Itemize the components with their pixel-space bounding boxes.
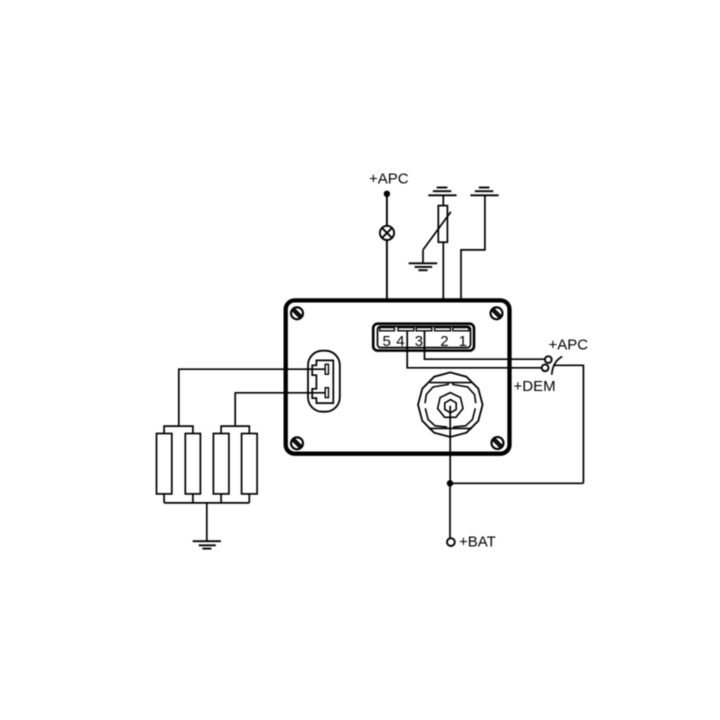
connector J3 ring segment top-left [425,383,448,404]
ground G4 (glow plugs) [193,541,221,548]
wire thermistor tap to ground G2 [422,250,424,263]
wire pin 4 to switch lower contact [407,331,542,368]
lamp L1 (indicator bulb) [380,226,394,240]
node A (junction dot under +APC) [384,191,390,197]
wire junction to switch branch [450,482,583,484]
svg-text:2: 2 [440,333,448,350]
connector J3 bottom chord [429,427,472,429]
svg-text:+DEM: +DEM [514,378,556,395]
wire junction to +BAT terminal [449,483,451,538]
wire switch to battery junction [553,365,583,483]
connector J3 inner ring [438,393,463,418]
ground G1 (inverted, above thermistor) [428,188,456,196]
pin slot upper [325,364,328,374]
pin slot lower [325,388,328,398]
screw bottom-left [291,437,303,449]
screw top-right [491,307,503,319]
connector J2 keyed profile [312,360,333,403]
pin 4 [398,328,414,331]
connector J3 top chord [430,382,472,384]
node B (battery junction dot) [447,480,453,486]
connector J3 ring segment bottom-right [454,408,475,428]
svg-text:5: 5 [383,333,391,350]
pin 3 [416,328,432,331]
svg-text:4: 4 [396,333,404,350]
connector J1 inner shell [378,326,471,347]
pin 1 [453,328,469,331]
connector J3 ring segment bottom-left [425,408,446,428]
screw top-left [291,307,303,319]
connector J3 ring segment top-right [453,383,476,404]
ground G2 (below thermistor tap) [409,263,438,270]
wire thermistor to pin 2 [442,242,444,329]
glow plug E3 [213,434,229,494]
wire ground G1 to thermistor [442,195,444,206]
switch S1 blade [552,357,563,375]
glow plug E4 [242,434,258,494]
svg-text:+APC: +APC [369,170,409,187]
wire J3 centre to battery junction [449,406,451,484]
glow plug E1 [157,434,172,494]
svg-text:3: 3 [415,333,423,350]
svg-text:+APC: +APC [549,337,589,354]
switch S1 lower contact [542,364,549,371]
bus pair A top [164,426,193,433]
wire lamp to pin 5 [386,240,388,329]
terminal +BAT (open circle) [447,538,455,546]
svg-text:1: 1 [459,333,467,350]
relay box U1 (outline) [286,300,510,453]
thermistor R1 (temperature sensor) [423,206,451,250]
glow plug E2 [185,434,200,494]
wire upper slot to plug pair A [179,369,325,426]
wire lower slot to plug pair B [235,393,325,426]
connector J3 (round, outer polygon) [418,372,483,437]
ground G3 (inverted, top right) [470,188,498,196]
svg-text:+BAT: +BAT [459,533,496,550]
pin 5 [380,328,395,331]
wire pin 3 to switch upper contact [425,331,545,359]
bus bottom (common) [164,494,249,503]
connector J1 (5-way, outer shell) [373,324,474,351]
connector J3 centre hexagon [445,400,456,413]
wire ground G3 to pin 1 [461,195,485,329]
switch S1 upper contact [545,356,552,363]
bus pair B top [221,426,249,433]
wire node A to lamp [386,194,388,226]
screw bottom-right [492,437,504,449]
connector J2 (2-way, outer shell) [308,351,340,412]
pin 2 [435,328,451,331]
wire bus to ground G4 [206,503,208,541]
